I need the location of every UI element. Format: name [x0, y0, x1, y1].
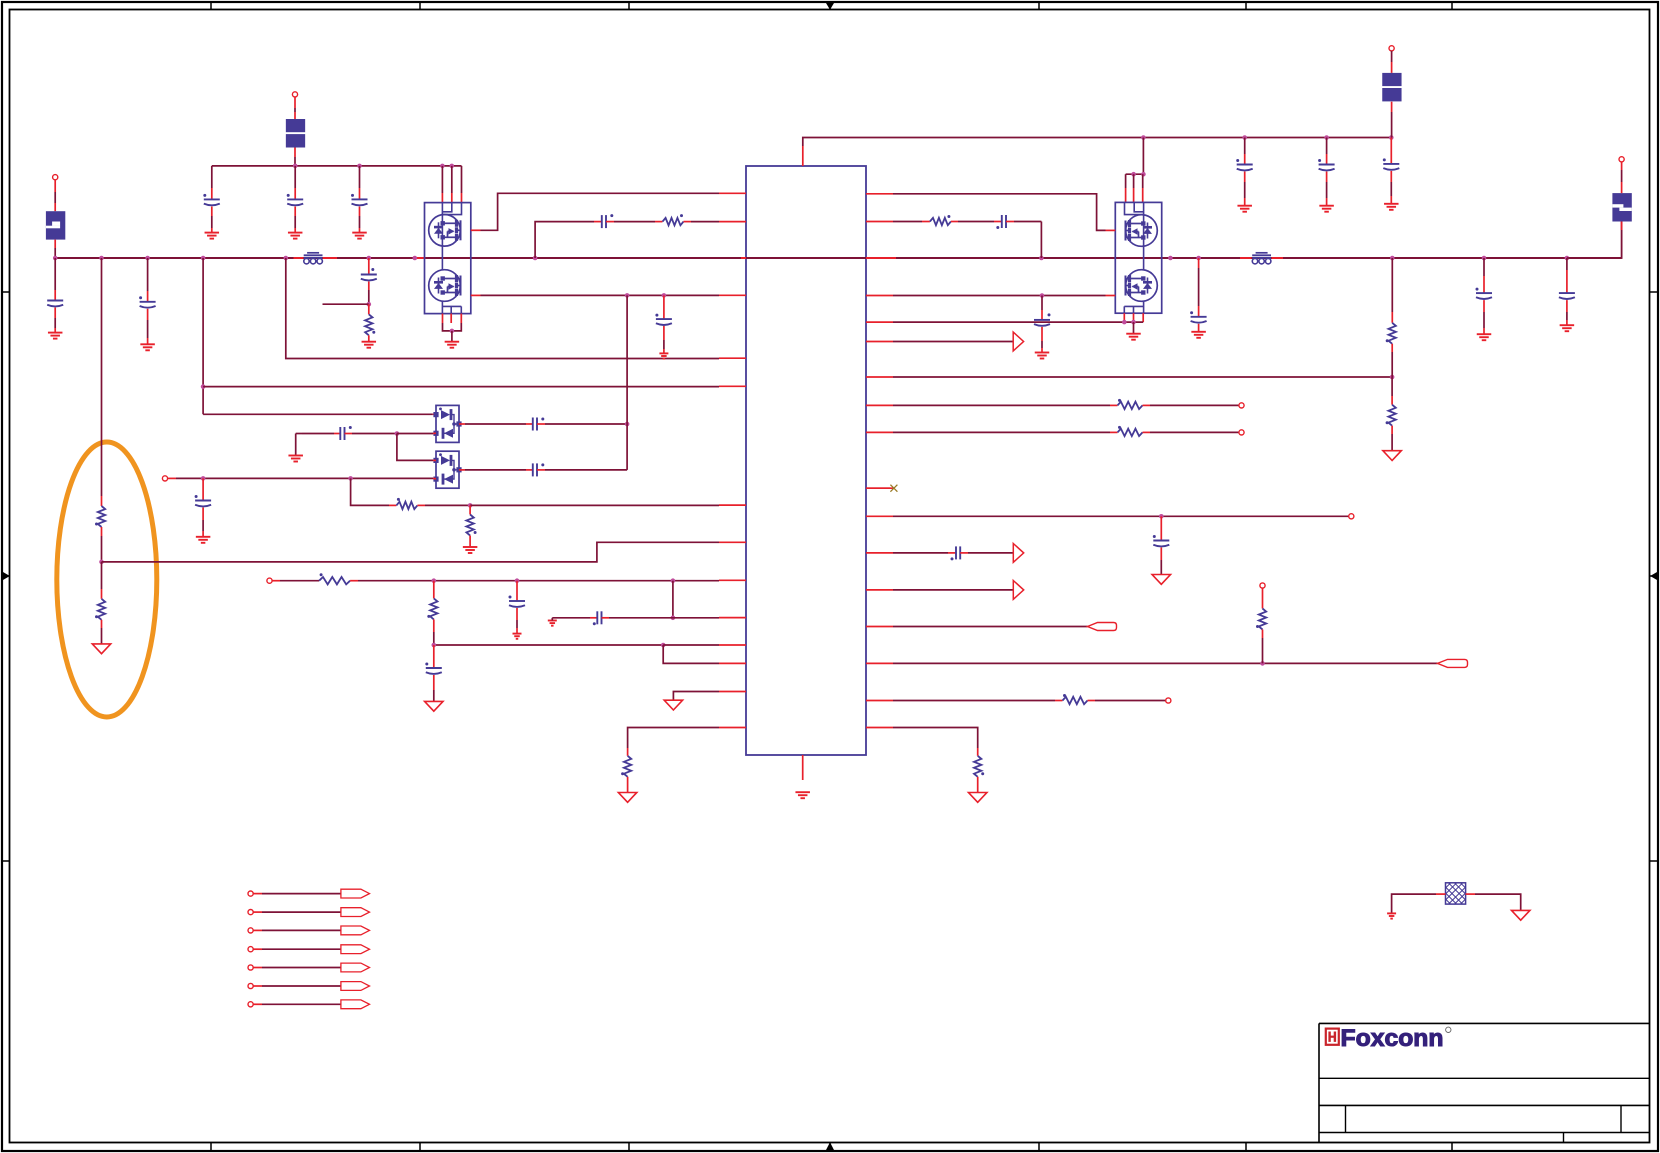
input port [1088, 623, 1117, 631]
mosfet Q1B [429, 270, 461, 302]
mosfet Q2A [1126, 215, 1158, 247]
capacitor C20 [996, 215, 1006, 229]
junction [1389, 135, 1394, 140]
connector P5 [1389, 46, 1394, 51]
wire [101, 527, 103, 536]
ground [1560, 325, 1575, 331]
wire [202, 508, 204, 521]
wire [368, 304, 370, 314]
pin [719, 617, 746, 619]
wire [663, 644, 719, 646]
ground [969, 793, 987, 803]
wire [1106, 295, 1116, 297]
wire [302, 433, 334, 435]
ground [1319, 206, 1334, 212]
wire [262, 911, 341, 913]
wire [1391, 258, 1393, 312]
wire [54, 318, 56, 328]
junction [1122, 320, 1127, 325]
zone tick [2, 860, 10, 862]
wire [1095, 700, 1166, 702]
ground [513, 634, 522, 639]
wire [1110, 431, 1118, 433]
zone tick [1650, 291, 1658, 293]
ground [795, 792, 810, 798]
input port [1438, 659, 1468, 667]
wire [1391, 102, 1393, 112]
wire [147, 309, 149, 320]
connector [1239, 430, 1244, 435]
wire [202, 520, 204, 531]
ground [425, 701, 443, 711]
junction [1141, 135, 1146, 140]
wire [294, 157, 296, 166]
pin [866, 626, 893, 628]
wire [606, 221, 614, 223]
wire [663, 349, 665, 353]
wire [1272, 257, 1283, 259]
wire [101, 628, 103, 644]
wire [1566, 258, 1568, 270]
wire [1125, 174, 1127, 188]
wire [101, 620, 103, 628]
junction [53, 256, 58, 261]
junction [1390, 375, 1395, 380]
capacitor C7 [602, 214, 614, 228]
pin [866, 700, 893, 702]
wire [1198, 306, 1200, 317]
wire [516, 592, 518, 601]
wire [1088, 700, 1096, 702]
Foxconn logo [1326, 1025, 1451, 1052]
wire [1262, 599, 1264, 609]
junction [671, 578, 676, 583]
wire [1160, 530, 1162, 541]
wire SW1R [893, 194, 1106, 231]
wire [296, 433, 302, 435]
wire [359, 228, 361, 233]
wire SW2 [481, 294, 720, 296]
wire [54, 308, 56, 319]
wire [537, 469, 545, 471]
resistor R6 [466, 515, 476, 536]
wire [1466, 893, 1475, 895]
capacitor C25 [1559, 293, 1575, 299]
wire [684, 221, 692, 223]
IC U1 main controller [746, 166, 866, 755]
mosfet Q1A [429, 215, 461, 247]
resistor R [1118, 426, 1143, 436]
resistor R3 [365, 314, 375, 335]
capacitor C13 [509, 596, 526, 607]
fuse F3 [1382, 73, 1401, 102]
wire [294, 216, 296, 228]
wire [294, 148, 296, 158]
wire [101, 258, 103, 496]
wire [893, 552, 948, 554]
wire [54, 203, 56, 211]
zone tick [1038, 2, 1040, 10]
pin [866, 221, 893, 223]
wire [469, 536, 471, 548]
wire [1391, 352, 1393, 377]
wire [628, 728, 719, 749]
ferrite bead FB1 [304, 253, 323, 264]
wire VCC top [803, 138, 1392, 147]
output port [341, 1000, 370, 1009]
wire [465, 423, 526, 425]
resistor R17 [974, 756, 984, 777]
pin [719, 385, 746, 387]
capacitor C [1236, 159, 1253, 170]
resistor R8 [427, 598, 437, 619]
fuse F1 [46, 211, 65, 239]
wire [294, 97, 296, 108]
zone tick [419, 2, 421, 10]
wire [294, 188, 296, 199]
fuse F4 [1612, 193, 1631, 221]
wire [516, 628, 518, 634]
zone tick [1245, 1143, 1247, 1152]
wire [1390, 196, 1392, 204]
resistor R12 [1386, 405, 1396, 426]
wire [433, 590, 435, 598]
wire [1143, 404, 1151, 406]
svg-text:Foxconn: Foxconn [1341, 1025, 1444, 1052]
wire enable [286, 258, 719, 359]
resistor R5 [396, 498, 417, 509]
ground [196, 537, 211, 543]
annotation ellipse [57, 442, 157, 717]
pin top [802, 146, 804, 166]
capacitor C [287, 194, 304, 205]
wire [1160, 548, 1162, 561]
wire [866, 257, 896, 259]
junction [1390, 256, 1395, 261]
center arrow left [2, 575, 10, 577]
wire [471, 294, 481, 296]
wire [461, 193, 463, 203]
wire [351, 478, 389, 505]
wire [1392, 894, 1436, 913]
pin [866, 404, 893, 406]
wire [433, 675, 435, 690]
wire [590, 617, 597, 619]
capacitor C11 [655, 314, 672, 325]
wire [433, 477, 436, 480]
wire [470, 504, 719, 506]
wire [516, 608, 518, 620]
junction [533, 256, 538, 261]
wire [459, 469, 465, 471]
wire [54, 240, 56, 248]
zone tick [419, 1143, 421, 1152]
wire drive A [203, 386, 719, 388]
junction [348, 476, 353, 481]
pin [866, 589, 893, 591]
wire [1390, 182, 1392, 196]
wire [977, 748, 979, 756]
capacitor C4 [47, 301, 63, 307]
wire [1041, 348, 1043, 353]
wire [434, 644, 663, 646]
wire [594, 221, 602, 223]
ground [362, 342, 377, 348]
wire [262, 948, 341, 950]
wire [253, 967, 262, 969]
ground [352, 233, 367, 239]
wire [893, 700, 1055, 702]
wire [368, 290, 370, 304]
ground [1191, 332, 1206, 338]
wire [893, 626, 1088, 628]
wire [1326, 154, 1328, 165]
wire [960, 552, 968, 554]
wire [1390, 155, 1392, 164]
wire [663, 295, 665, 310]
pin [719, 727, 746, 729]
wire PGND sense [893, 321, 1143, 323]
wire [1055, 700, 1063, 702]
wire [1041, 327, 1043, 341]
ferrite bead FB2 [1252, 253, 1271, 264]
wire [147, 320, 149, 338]
wire [614, 221, 655, 223]
connector P7 [1260, 583, 1265, 588]
wire [1150, 431, 1239, 433]
junction [293, 164, 298, 169]
ground [1512, 910, 1530, 920]
wire [627, 777, 629, 793]
signal arrow [1013, 332, 1023, 351]
zone tick [2, 291, 10, 293]
capacitor C [203, 194, 220, 205]
wire [433, 645, 435, 659]
wire [345, 433, 353, 435]
wire source leads [442, 314, 444, 323]
output port [341, 982, 370, 991]
wire [1133, 322, 1135, 334]
signal arrow [1013, 544, 1023, 563]
wire [1566, 300, 1568, 312]
wire [1040, 222, 1042, 259]
wire [1391, 377, 1393, 396]
resistor R9 [621, 756, 631, 777]
wire [1006, 221, 1014, 223]
wire [54, 258, 56, 290]
ground [92, 644, 110, 654]
dual diode D1 [433, 405, 461, 442]
junction [201, 256, 206, 261]
junction [1141, 172, 1146, 177]
wire [202, 478, 204, 491]
wire [1262, 638, 1264, 663]
wire [1160, 516, 1162, 530]
pin [719, 221, 746, 223]
wire [352, 433, 397, 435]
wire [526, 423, 533, 425]
pin [866, 515, 893, 517]
wire [294, 207, 296, 217]
wire [1262, 630, 1264, 639]
wire SW1 [481, 193, 720, 230]
pin [719, 579, 746, 581]
ground [659, 353, 668, 358]
wire [253, 948, 262, 950]
junction [468, 503, 473, 508]
wire [101, 589, 103, 599]
capacitor C10 [533, 463, 545, 476]
wire [609, 617, 719, 619]
wire [433, 413, 436, 415]
junction [515, 578, 520, 583]
junction [440, 164, 445, 169]
wire boot R [893, 221, 922, 223]
resistor R15 [1256, 609, 1266, 630]
connector [248, 1002, 253, 1007]
capacitor C9 [533, 418, 545, 431]
zone tick [1451, 2, 1453, 10]
wire [626, 295, 628, 470]
wire [211, 228, 213, 233]
wire [741, 257, 746, 259]
wire [602, 617, 610, 619]
wire [1123, 313, 1125, 322]
capacitor C5 [139, 296, 156, 307]
wire sense [893, 431, 1110, 433]
junction [99, 256, 104, 261]
connector P8 [1166, 698, 1171, 703]
wire [1240, 257, 1252, 259]
wire [176, 477, 433, 479]
ground [664, 700, 682, 710]
fuse F2 [286, 119, 305, 148]
junction [284, 256, 289, 261]
wire [1483, 312, 1485, 328]
zone tick [1038, 1143, 1040, 1152]
wire [1143, 431, 1151, 433]
wire [663, 326, 665, 340]
wire [262, 929, 341, 931]
wire [359, 216, 361, 228]
connector [248, 928, 253, 933]
wire [262, 1003, 341, 1005]
wire [1142, 138, 1144, 175]
wire [441, 166, 443, 193]
pin [719, 541, 746, 543]
output port [341, 945, 370, 954]
junction [413, 256, 418, 261]
resistor R4 [663, 214, 684, 225]
wire [1133, 313, 1135, 322]
center arrow right [1650, 575, 1658, 577]
wire [1198, 324, 1200, 328]
no-connect X1 [890, 485, 897, 492]
resistor R10 [930, 215, 951, 225]
junction [367, 302, 372, 307]
capacitor C8 [340, 426, 352, 440]
pin [719, 294, 746, 296]
wire [994, 221, 1002, 223]
wire [1621, 182, 1623, 193]
wire [441, 193, 443, 203]
ground [140, 344, 155, 350]
junction [1242, 135, 1247, 140]
wire [433, 459, 436, 461]
junction [625, 422, 630, 427]
zone tick [210, 1143, 212, 1152]
wire [211, 216, 213, 228]
junction [99, 560, 104, 565]
mosfet Q2B [1126, 270, 1158, 302]
wire [1390, 138, 1392, 156]
wire [359, 207, 361, 217]
wire [1262, 588, 1264, 599]
pin bottom [802, 755, 804, 780]
capacitor C19 [1034, 313, 1051, 325]
mosfet internal wiring [442, 203, 461, 314]
junction [1131, 320, 1136, 325]
wire [101, 496, 103, 506]
capacitor C15 [425, 663, 442, 674]
wire [1142, 188, 1144, 202]
wire [323, 257, 337, 259]
wire [368, 258, 370, 266]
connector [248, 910, 253, 915]
zone tick [1451, 1143, 1453, 1152]
wire [951, 221, 958, 223]
mosfet internal wiring [1124, 202, 1143, 313]
junction [1565, 256, 1570, 261]
wire [663, 645, 719, 663]
junction [432, 643, 437, 648]
wire [433, 581, 435, 590]
wire [425, 504, 470, 506]
wire [545, 469, 627, 471]
wire [1475, 894, 1521, 910]
wire [294, 166, 296, 188]
wire [147, 338, 149, 344]
wire [334, 433, 340, 435]
zone tick [628, 1143, 630, 1152]
pin [866, 341, 893, 343]
wire mosfet top pins [1126, 173, 1144, 175]
junction [1324, 135, 1329, 140]
wire [280, 580, 319, 582]
capacitor C6 [361, 268, 377, 280]
junction [662, 293, 667, 298]
wire [389, 504, 396, 506]
wire [433, 659, 435, 668]
wire [1244, 172, 1246, 183]
wire [1244, 154, 1246, 165]
wire [54, 192, 56, 203]
resistor R [1118, 399, 1143, 409]
pin [866, 487, 893, 489]
junction [1040, 293, 1045, 298]
wire [1567, 222, 1622, 259]
zone tick [628, 2, 630, 10]
capacitor C [351, 194, 368, 205]
wire [451, 193, 453, 203]
wire [1125, 188, 1127, 202]
junction [367, 256, 372, 261]
wire [294, 257, 304, 259]
wire [359, 188, 361, 199]
wire [272, 580, 280, 582]
pin [866, 193, 893, 195]
wire [1133, 188, 1135, 202]
